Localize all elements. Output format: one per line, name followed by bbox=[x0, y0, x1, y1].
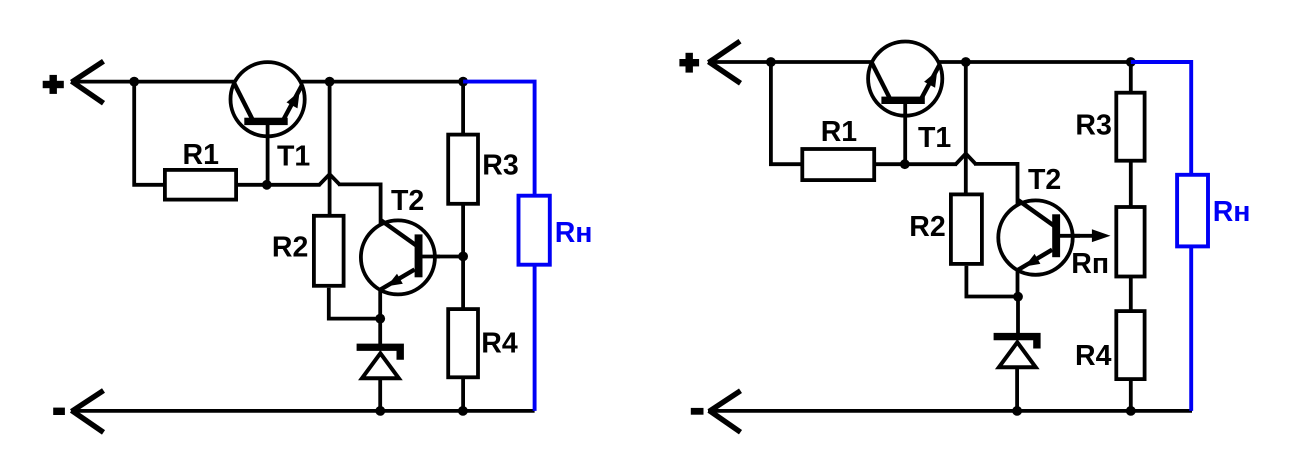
zener diode VD1 (left) bbox=[357, 344, 404, 379]
wire load branch blue (right) bbox=[1131, 62, 1191, 411]
terminal - (right) minus sign bbox=[691, 408, 704, 415]
wire Y-split right diagonal bbox=[330, 174, 340, 184]
transistor T1 (left) bbox=[231, 62, 305, 185]
resistor R4 (right) bbox=[1116, 311, 1144, 379]
svg-text:R1: R1 bbox=[821, 116, 858, 148]
junction node G (R4-rail) bbox=[458, 406, 468, 416]
transistor T2 (left) bbox=[361, 220, 440, 294]
svg-text:R3: R3 bbox=[482, 149, 518, 181]
svg-text:Rн: Rн bbox=[555, 217, 593, 249]
resistor R3 (right) bbox=[1116, 93, 1144, 161]
resistor R1 (right) bbox=[802, 149, 874, 180]
wire zener VD1 down to bottom rail bbox=[378, 377, 382, 411]
terminal + (left) plus sign bbox=[43, 75, 64, 94]
junction node H (rail-R3-blue) bbox=[458, 77, 468, 87]
svg-text:T1: T1 bbox=[277, 140, 310, 172]
terminal - (left) arrow chevron bbox=[72, 391, 104, 433]
wire T2 base to node E bbox=[421, 255, 463, 259]
wire jog to T2 collector bbox=[338, 184, 381, 230]
wire node H down to R3 bbox=[461, 82, 465, 133]
transistor T1 (right) bbox=[868, 42, 942, 165]
svg-text:T1: T1 bbox=[918, 122, 951, 154]
wire R3 bottom to Rp top bbox=[1129, 162, 1133, 205]
wiper arrowhead into Rp bbox=[1092, 229, 1111, 242]
resistor RH load (left, blue) bbox=[519, 196, 550, 265]
wire T2 base to Rp wiper arrow bbox=[1058, 234, 1096, 238]
wire drop node I to R1 bbox=[771, 62, 801, 164]
svg-text:R4: R4 bbox=[481, 327, 518, 359]
junction node C (rail-T1 collector) bbox=[325, 77, 335, 87]
svg-text:R2: R2 bbox=[909, 211, 945, 243]
resistor R4 (left) bbox=[448, 309, 478, 377]
wire jog to T2 collector bbox=[974, 164, 1018, 210]
junction node N (zener-rail) bbox=[1012, 406, 1022, 416]
terminal - (left) minus sign bbox=[53, 408, 65, 415]
terminal + (right) plus sign bbox=[679, 53, 699, 73]
transistor T2 (right) bbox=[998, 200, 1080, 275]
wire T1 collector drop: node K down to R2 top bbox=[964, 62, 968, 193]
wire node D down to zener VD1 bbox=[378, 319, 382, 347]
wire R4 bottom to rail bbox=[1129, 381, 1133, 411]
resistor R2 (left) bbox=[314, 216, 344, 286]
zener diode VD2 (right) bbox=[994, 333, 1041, 367]
terminal + (right) arrow chevron bbox=[709, 41, 741, 83]
potentiometer Rp (right) bbox=[1116, 207, 1144, 277]
wire top rail (right) bbox=[708, 60, 1131, 64]
wire bottom rail (right circuit) bbox=[708, 409, 1192, 413]
wire R1 right to Y-split bbox=[876, 162, 958, 166]
wire Y-split left diagonal bbox=[319, 174, 329, 185]
wire Rp bottom to R4 top bbox=[1129, 278, 1133, 310]
junction node D (R2-emitter-zener) bbox=[375, 314, 385, 324]
wire T2 emitter down to node D bbox=[378, 288, 382, 319]
svg-text:T2: T2 bbox=[1028, 164, 1061, 196]
svg-text:T2: T2 bbox=[391, 185, 424, 217]
wire zener VD2 down to bottom rail bbox=[1015, 366, 1019, 411]
wire load branch blue (left) bbox=[463, 82, 534, 411]
junction node M (R2-emitter-zener) bbox=[1013, 292, 1023, 302]
resistor RH load (right, blue) bbox=[1177, 175, 1208, 247]
junction node A bbox=[129, 77, 139, 87]
wire R2 bottom to node D bbox=[329, 288, 380, 319]
junction node L (rail-R3-blue) bbox=[1126, 57, 1136, 67]
svg-text:R2: R2 bbox=[272, 232, 308, 264]
svg-text:R4: R4 bbox=[1075, 340, 1112, 372]
wire R1 right to Y-split bbox=[238, 183, 321, 187]
terminal - (right) arrow chevron bbox=[709, 391, 741, 433]
wire T1 collector drop: rail node C down to R2 top bbox=[328, 82, 332, 215]
junction node E (R3-R4-base) bbox=[458, 252, 468, 262]
wire T2 emitter down to node M bbox=[1016, 268, 1020, 297]
wire R2 bottom to node M bbox=[966, 266, 1018, 297]
resistor R1 (left) bbox=[165, 170, 236, 200]
junction node K (rail-T1 collector) bbox=[961, 57, 971, 67]
junction node O (R4-rail) bbox=[1126, 406, 1136, 416]
junction node J (R1-T1 base) bbox=[900, 159, 910, 169]
svg-text:R3: R3 bbox=[1075, 110, 1111, 142]
wire drop from node A down to R1 level bbox=[134, 82, 163, 185]
wire R3 bottom to R4 top through node E bbox=[461, 206, 465, 308]
wire node M down to zener VD2 bbox=[1016, 297, 1020, 336]
svg-text:Rн: Rн bbox=[1213, 196, 1251, 228]
wire node L down to R3 bbox=[1129, 62, 1133, 91]
terminal + (left) arrow chevron bbox=[72, 61, 104, 103]
junction node F (zener-rail) bbox=[375, 406, 385, 416]
junction node B (R1-T1 base) bbox=[262, 180, 272, 190]
svg-text:R1: R1 bbox=[183, 139, 220, 171]
wire Y-split right diagonal bbox=[966, 154, 976, 164]
wire Y-split left diagonal bbox=[956, 154, 966, 165]
wire top rail (left, + to node H) bbox=[71, 80, 463, 84]
resistor R3 (left) bbox=[448, 135, 478, 204]
wire R4 bottom to rail bbox=[461, 379, 465, 411]
svg-text:Rп: Rп bbox=[1071, 248, 1109, 280]
resistor R2 (right) bbox=[951, 194, 982, 264]
wire bottom rail (left circuit) bbox=[71, 409, 535, 413]
junction node I bbox=[766, 57, 776, 67]
